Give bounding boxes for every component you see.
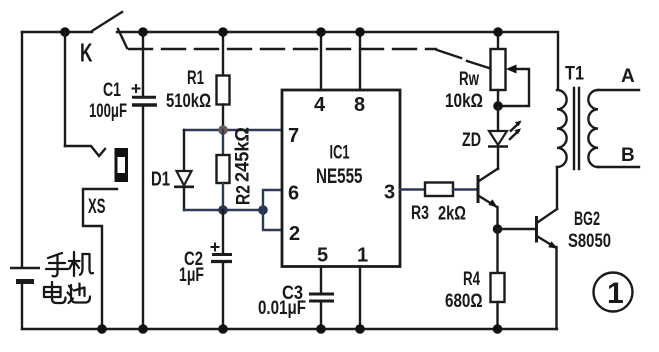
label K [80, 38, 93, 68]
svg-text:1: 1 [607, 277, 624, 310]
label R3 value 2kΩ [438, 204, 466, 225]
wire top supply rail left segment [22, 31, 92, 33]
pin 4 label [314, 94, 326, 116]
resistor R2 [217, 130, 230, 210]
junction pin4 rail [316, 27, 326, 37]
svg-text:3: 3 [384, 182, 395, 204]
svg-text:245kΩ: 245kΩ [233, 127, 254, 182]
label NE555 [316, 165, 363, 188]
diode D1 [174, 130, 194, 210]
pin 7 label [288, 125, 299, 147]
transformer T1 core [574, 88, 579, 169]
wire bottom ground rail [22, 328, 557, 330]
label C2 [184, 249, 203, 270]
svg-text:1: 1 [357, 245, 368, 267]
transistor Q1 [478, 169, 498, 230]
pin 3 label [384, 182, 395, 204]
junction C3 bottom [316, 324, 326, 334]
transformer T1 secondary winding [588, 90, 639, 167]
resistor R4 [491, 229, 505, 329]
label T1 [565, 64, 584, 85]
junction C2 bottom [218, 324, 228, 334]
svg-text:ZD: ZD [462, 130, 481, 151]
svg-text:IC1: IC1 [330, 143, 350, 164]
junction XS-bottom [97, 324, 107, 334]
junction C1 bottom [138, 324, 148, 334]
svg-text:R4: R4 [463, 269, 480, 290]
svg-text:5: 5 [317, 245, 328, 267]
svg-text:K: K [80, 38, 93, 68]
label D1 [151, 169, 170, 191]
transformer T1 primary winding [557, 90, 567, 167]
wire Q2 base [498, 228, 537, 230]
op-amp IC1 NE555 body [282, 90, 400, 267]
svg-text:A: A [621, 66, 635, 87]
svg-text:7: 7 [288, 125, 299, 147]
pin 6 label [288, 183, 299, 205]
label BG2 [574, 209, 600, 230]
mechanical link dashed line K to Rw [129, 49, 489, 68]
junction Rw rail top [493, 27, 503, 37]
svg-text:XS: XS [88, 195, 106, 218]
label IC1 [330, 143, 350, 164]
label C3 value 0.01μF [258, 298, 306, 319]
resistor R3 [425, 183, 477, 197]
capacitor C1 [132, 32, 158, 329]
junction pin8 rail [355, 27, 365, 37]
label C3 [282, 283, 303, 304]
wire pin1 to ground rail [359, 267, 361, 330]
svg-text:B: B [621, 145, 635, 166]
label R4 value 680Ω [445, 291, 483, 312]
svg-text:510kΩ: 510kΩ [166, 91, 211, 112]
svg-text:1μF: 1μF [179, 265, 204, 286]
svg-text:4: 4 [314, 94, 326, 116]
node R2 bottom junction [218, 205, 228, 215]
label R2 rotated [234, 185, 255, 205]
label R4 [463, 269, 480, 290]
node Rw bottom / wiper junction [493, 101, 503, 111]
wire top supply rail main segment [117, 32, 558, 88]
svg-text:6: 6 [288, 183, 299, 205]
label R1 [187, 68, 204, 89]
label R1 value 510kΩ [166, 91, 211, 112]
wire Q2 emitter to ground rail [555, 247, 557, 329]
label ZD [462, 130, 481, 151]
wire XS branch from rail [64, 32, 66, 146]
svg-text:2kΩ: 2kΩ [438, 204, 466, 225]
potentiometer Rw [491, 32, 530, 106]
wire Q2 collector to T1 [556, 167, 558, 209]
label XS [88, 195, 106, 218]
svg-text:NE555: NE555 [316, 165, 363, 188]
node pin6-2 connector junction [258, 205, 268, 215]
wire pin3 stub [400, 188, 425, 190]
transistor Q2 BG2 [537, 209, 558, 249]
junction C1 top [138, 27, 148, 37]
svg-text:R3: R3 [411, 203, 429, 224]
capacitor C2 [211, 210, 233, 329]
junction pin1 bottom [355, 324, 365, 334]
pin 5 label [317, 245, 328, 267]
figure number 1 circled [594, 273, 633, 312]
resistor R1 [217, 32, 230, 130]
wire node line D1/R2/C2 to pin6-2 [184, 209, 263, 211]
wire pin8 to rail [359, 32, 361, 90]
terminal B label [621, 145, 635, 166]
label battery 电池 (battery) [44, 282, 90, 303]
svg-text:C1: C1 [103, 80, 121, 101]
svg-text:680Ω: 680Ω [445, 291, 483, 312]
label battery 手机 (phone) [46, 252, 93, 276]
svg-text:R1: R1 [187, 68, 204, 89]
svg-text:T1: T1 [565, 64, 584, 85]
svg-text:100μF: 100μF [89, 101, 127, 122]
label S8050 [568, 231, 611, 252]
svg-text:S8050: S8050 [568, 231, 611, 252]
svg-text:0.01μF: 0.01μF [258, 298, 306, 319]
svg-text:Rw: Rw [459, 69, 479, 90]
node R1-R2-pin7 junction [218, 125, 228, 135]
junction R4 bottom [493, 324, 503, 334]
wire pin7 net horizontal [184, 129, 282, 131]
label R3 [411, 203, 429, 224]
connector XS jack socket [65, 146, 128, 329]
node Q1 emitter / Q2 base / R4 junction [493, 224, 503, 234]
label Rw [459, 69, 479, 90]
capacitor C3 [309, 267, 334, 330]
junction R1 top [218, 27, 228, 37]
wire pin6-pin2 connector [263, 190, 282, 230]
pin 1 label [357, 245, 368, 267]
svg-text:R2: R2 [234, 185, 255, 205]
label C1 [103, 80, 121, 101]
svg-text:2: 2 [289, 223, 300, 245]
svg-text:8: 8 [354, 94, 365, 116]
wire pin4 to rail [320, 32, 322, 90]
pin 8 label [354, 94, 365, 116]
LED ZD [488, 106, 522, 169]
switch K [60, 12, 127, 48]
label C2 value 1μF [179, 265, 204, 286]
terminal A label [621, 66, 635, 87]
svg-text:D1: D1 [151, 169, 170, 191]
wire left branch vertical [21, 32, 23, 267]
label R2 value 245kΩ rotated [233, 127, 254, 182]
label Rw value 10kΩ [445, 91, 483, 112]
battery 手机电池 [10, 268, 40, 329]
pin 2 label [289, 223, 300, 245]
svg-text:10kΩ: 10kΩ [445, 91, 483, 112]
svg-text:BG2: BG2 [574, 209, 600, 230]
label C1 value 100μF [89, 101, 127, 122]
